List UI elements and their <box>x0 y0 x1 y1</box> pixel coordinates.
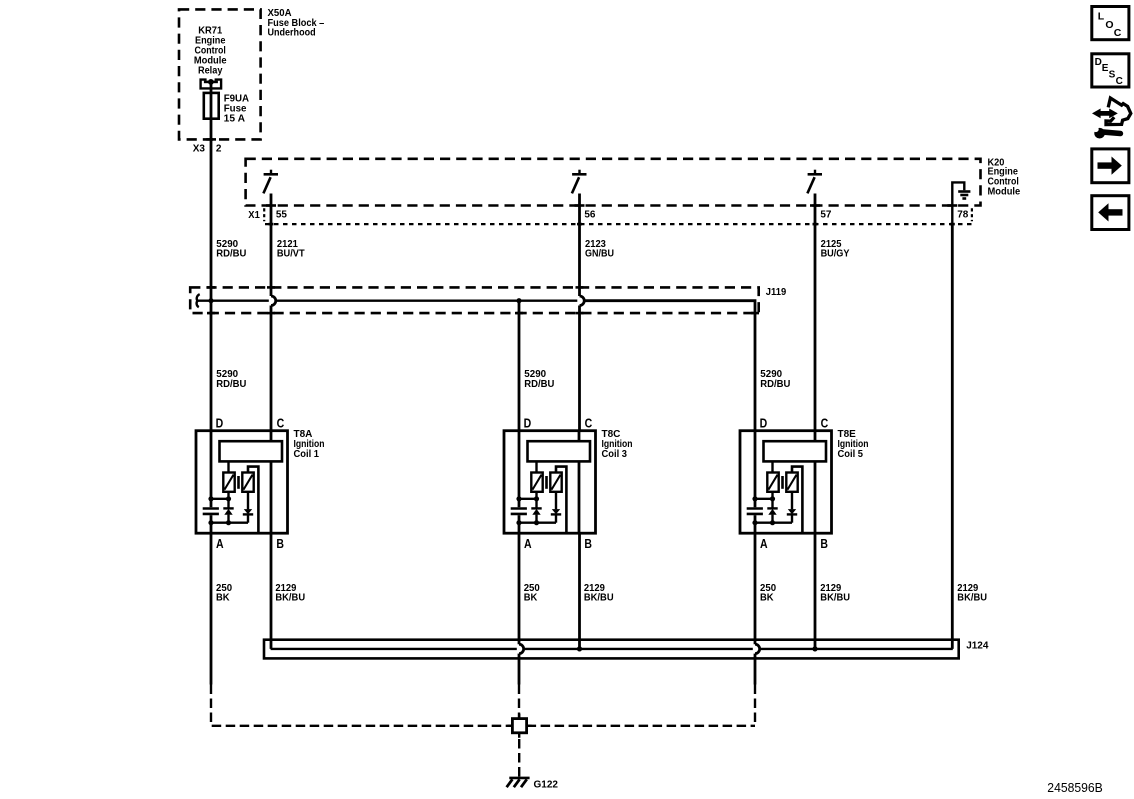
svg-text:S: S <box>1109 69 1116 80</box>
coil T8C terminal B wire from driver block <box>578 461 581 533</box>
internal node row upper <box>755 498 773 500</box>
svg-text:G122: G122 <box>534 779 559 790</box>
svg-text:B: B <box>276 537 284 551</box>
secondary winding <box>242 473 253 492</box>
wire 250 BK: coil T8A terminal A down (solid part) <box>210 533 213 684</box>
label wire 2123 GN/BU <box>585 239 614 259</box>
svg-text:A: A <box>216 537 224 551</box>
junction dot <box>208 520 213 525</box>
junction dot <box>516 520 521 525</box>
junction dot <box>770 496 775 501</box>
svg-text:BK: BK <box>760 593 774 604</box>
toolbar button next (right arrow) <box>1092 149 1129 183</box>
toolbar icon harness repair (arrows and wrench) <box>1092 98 1131 139</box>
label T8A Ignition Coil 1 <box>294 429 325 460</box>
junction on J124 bus at coil T8E terminal B <box>812 646 817 651</box>
svg-text:Module: Module <box>988 187 1021 198</box>
label wire 5290 RD/BU above coil T8A <box>216 369 246 390</box>
ignition coil T8A (Ignition Coil 1) <box>196 416 288 551</box>
toolbar button DESC <box>1092 54 1129 87</box>
junction dot <box>516 496 521 501</box>
ground wire (dashed): square connector to coil T8E branch <box>527 725 755 727</box>
capacitor plates <box>511 509 527 514</box>
wire 250 BK: coil T8C terminal A down, hops J124 bus <box>519 533 524 684</box>
junction dot <box>534 520 539 525</box>
connector bracket at pin 78 <box>971 208 973 221</box>
svg-text:BK/BU: BK/BU <box>584 593 614 604</box>
ECM K20 outline <box>246 159 981 206</box>
svg-text:A: A <box>760 537 768 551</box>
svg-text:X3: X3 <box>193 144 206 155</box>
svg-text:BK: BK <box>524 593 538 604</box>
label wire 250 BK (coil T8E) <box>760 583 777 604</box>
secondary winding <box>550 473 561 492</box>
secondary winding <box>786 473 797 492</box>
splice pack J124 housing <box>264 640 959 659</box>
wire driver block to primary winding <box>771 461 773 472</box>
diode 1 (anode down) <box>531 499 541 523</box>
secondary output wire to case edge <box>792 467 802 534</box>
wire driver block to primary winding <box>535 461 537 472</box>
coil T8C driver block <box>528 441 591 461</box>
svg-text:C: C <box>277 416 285 430</box>
ground G122 symbol <box>507 778 530 787</box>
wire 2129 BK/BU: coil T8E terminal B to J124 <box>814 533 817 649</box>
svg-text:X1: X1 <box>248 209 260 221</box>
secondary output wire to case edge <box>556 467 566 534</box>
internal node row upper <box>519 498 537 500</box>
connector ticks on X1 pin row <box>269 223 955 226</box>
internal node row lower <box>755 522 792 524</box>
wire driver block to primary winding <box>227 461 229 472</box>
connector ticks on ECM box bottom edge <box>266 204 957 207</box>
svg-text:C: C <box>1114 27 1122 39</box>
ECM driver switch pin 55 <box>263 170 278 194</box>
coil T8A terminal B wire from driver block <box>270 461 273 533</box>
label T8E Ignition Coil 5 <box>838 429 869 460</box>
coil T8C case <box>504 431 596 534</box>
ignition coil T8E (Ignition Coil 5) <box>740 416 832 551</box>
coil T8A terminal D wire inside case <box>210 431 213 534</box>
J119 bus terminal hook <box>197 294 200 307</box>
connector ticks on J119 bottom edge <box>207 312 759 315</box>
junction on J119 bus at feed wire <box>208 298 213 303</box>
diode 2 (anode up) <box>787 492 797 523</box>
junction on J119 bus at coil T8C feed <box>516 298 521 303</box>
svg-text:Coil 3: Coil 3 <box>602 449 628 460</box>
svg-text:BK: BK <box>216 593 230 604</box>
ECM driver switch pin 57 <box>807 170 822 194</box>
junction dot <box>752 496 757 501</box>
svg-text:55: 55 <box>276 209 287 221</box>
wire 2125 BU/GY: ECM pin 57 to coil T8E terminal C <box>814 194 817 431</box>
coil T8E terminal D wire inside case <box>754 431 757 534</box>
inline connector square to ground G122 <box>507 714 531 738</box>
svg-text:D: D <box>1095 57 1102 68</box>
coil T8A case <box>196 431 288 534</box>
wire 2129 BK/BU: coil T8A terminal B to J124 <box>270 533 273 649</box>
primary winding <box>223 473 234 492</box>
label wire 2129 BK/BU (coil T8C) <box>584 583 614 604</box>
wire primary winding to junction row <box>227 492 229 499</box>
internal node row lower <box>211 522 248 524</box>
wire 250 BK: coil T8E terminal A down, hops J124 bus <box>755 533 760 684</box>
connector ticks on J119 top edge <box>207 286 584 289</box>
svg-text:B: B <box>820 537 828 551</box>
label wire 5290 RD/BU above coil T8E <box>760 369 790 390</box>
junction dot <box>770 520 775 525</box>
connector X1 pin face row <box>265 223 972 225</box>
junction dot <box>752 520 757 525</box>
svg-text:56: 56 <box>584 209 595 221</box>
ECM internal ground symbol at pin 78 <box>952 182 970 224</box>
junction dot <box>534 496 539 501</box>
wire 5290 RD/BU: J119 bus to coil T8C terminal D <box>518 301 521 431</box>
diode 1 (anode down) <box>767 499 777 523</box>
connector X3 pin tick <box>206 138 216 141</box>
label wire 250 BK (coil T8C) <box>524 583 541 604</box>
internal node row upper <box>211 498 229 500</box>
svg-text:GN/BU: GN/BU <box>585 248 614 259</box>
relay KR71 contact symbol <box>201 79 222 88</box>
svg-text:BU/GY: BU/GY <box>821 248 850 259</box>
wire primary winding to junction row <box>771 492 773 499</box>
svg-text:BU/VT: BU/VT <box>277 248 305 259</box>
capacitor plates <box>203 509 219 514</box>
svg-text:RD/BU: RD/BU <box>524 379 554 390</box>
svg-text:Relay: Relay <box>198 66 223 77</box>
label wire 2129 BK/BU (coil T8A) <box>275 583 305 604</box>
svg-text:J119: J119 <box>766 287 787 298</box>
label T8C Ignition Coil 3 <box>602 429 633 460</box>
secondary output wire to case edge <box>248 467 258 534</box>
label wire 2125 BU/GY <box>821 239 850 259</box>
toolbar button LOC <box>1092 7 1129 40</box>
svg-text:78: 78 <box>957 209 968 221</box>
label wire 5290 RD/BU above coil T8C <box>524 369 554 390</box>
label K20 Engine Control Module <box>988 157 1021 197</box>
coil core <box>237 476 240 489</box>
wire: relay through fuse F9UA down to coil T8A terminal D (5290 RD/BU) <box>210 82 213 431</box>
diode 2 (anode up) <box>243 492 253 523</box>
wire primary winding to junction row <box>535 492 537 499</box>
coil T8E driver block <box>764 441 827 461</box>
coil T8E terminal B wire from driver block <box>814 461 817 533</box>
label wire 5290 RD/BU (upper) <box>216 239 246 259</box>
svg-text:2458596B: 2458596B <box>1047 780 1103 795</box>
fuse block X50A outline <box>179 9 261 139</box>
coil T8A driver block <box>220 441 283 461</box>
svg-text:2: 2 <box>216 144 222 155</box>
svg-text:L: L <box>1098 10 1105 22</box>
label F9UA Fuse 15 A <box>224 94 249 125</box>
label wire 2121 BU/VT <box>277 239 305 259</box>
svg-text:A: A <box>524 537 532 551</box>
wire 2123 GN/BU: ECM pin 56 to coil T8C terminal C, hops J119 bus <box>580 194 585 431</box>
splice pack J119 outline <box>190 287 759 313</box>
ECM driver switch pin 56 <box>572 170 587 194</box>
svg-text:O: O <box>1105 19 1113 31</box>
svg-text:D: D <box>216 416 224 430</box>
label wire 250 BK (coil T8A) <box>216 583 233 604</box>
coil core <box>545 476 548 489</box>
internal node row lower <box>519 522 556 524</box>
label X50A Fuse Block - Underhood <box>268 8 325 39</box>
wire 2129 BK/BU: ECM pin 78 ground to splice pack J124 <box>951 224 954 649</box>
junction on J124 bus at coil T8C terminal B <box>577 646 582 651</box>
diode 1 (anode down) <box>223 499 233 523</box>
ground wire (dashed): coil T8E terminal A branch <box>754 685 756 726</box>
svg-text:Coil 1: Coil 1 <box>294 449 320 460</box>
fuse F9UA <box>204 93 219 119</box>
svg-text:B: B <box>584 537 592 551</box>
svg-text:RD/BU: RD/BU <box>216 379 246 390</box>
svg-text:C: C <box>821 416 829 430</box>
coil core <box>781 476 784 489</box>
svg-text:BK/BU: BK/BU <box>820 593 850 604</box>
connector X1 left bracket <box>263 208 265 221</box>
coil T8E case <box>740 431 832 534</box>
label relay KR71 Engine Control Module Relay <box>194 26 227 77</box>
primary winding <box>531 473 542 492</box>
wire 2121 BU/VT: ECM pin 55 to coil T8A terminal C, hops J119 bus <box>271 194 276 431</box>
svg-text:BK/BU: BK/BU <box>275 593 305 604</box>
svg-text:D: D <box>524 416 532 430</box>
svg-text:C: C <box>585 416 593 430</box>
svg-text:D: D <box>760 416 768 430</box>
svg-text:Coil 5: Coil 5 <box>838 449 864 460</box>
coil T8A terminal C wire into driver block <box>270 431 273 442</box>
svg-text:BK/BU: BK/BU <box>957 593 987 604</box>
ground wire (dashed): coil T8A terminal A to G122 run <box>211 685 512 726</box>
wire 2129 BK/BU: coil T8C terminal B to J124 <box>578 533 581 649</box>
svg-text:RD/BU: RD/BU <box>216 248 246 259</box>
primary winding <box>767 473 778 492</box>
coil T8C terminal C wire into driver block <box>578 431 581 442</box>
svg-text:15 A: 15 A <box>224 113 245 124</box>
J119 internal bus wire (gaps at wire hops) <box>198 301 756 431</box>
capacitor plates <box>747 509 763 514</box>
svg-text:J124: J124 <box>966 641 989 652</box>
junction dot <box>226 520 231 525</box>
label wire 2129 BK/BU (ECM pin 78) <box>957 583 987 604</box>
diode 2 (anode up) <box>551 492 561 523</box>
coil T8C terminal D wire inside case <box>518 431 521 534</box>
svg-text:C: C <box>1116 76 1123 87</box>
svg-text:RD/BU: RD/BU <box>760 379 790 390</box>
svg-text:57: 57 <box>820 209 831 221</box>
ground wire (dashed): coil T8C terminal A branch <box>518 685 520 719</box>
ignition coil T8C (Ignition Coil 3) <box>504 416 596 551</box>
J124 internal bus wire (gaps at wire hops) <box>271 648 953 650</box>
junction dot <box>208 496 213 501</box>
junction dot <box>226 496 231 501</box>
svg-text:Underhood: Underhood <box>268 28 316 39</box>
label wire 2129 BK/BU (coil T8E) <box>820 583 850 604</box>
toolbar button back (left arrow) <box>1092 196 1129 230</box>
coil T8E terminal C wire into driver block <box>814 431 817 442</box>
ground wire (dashed): connector to ground G122 <box>518 739 520 777</box>
